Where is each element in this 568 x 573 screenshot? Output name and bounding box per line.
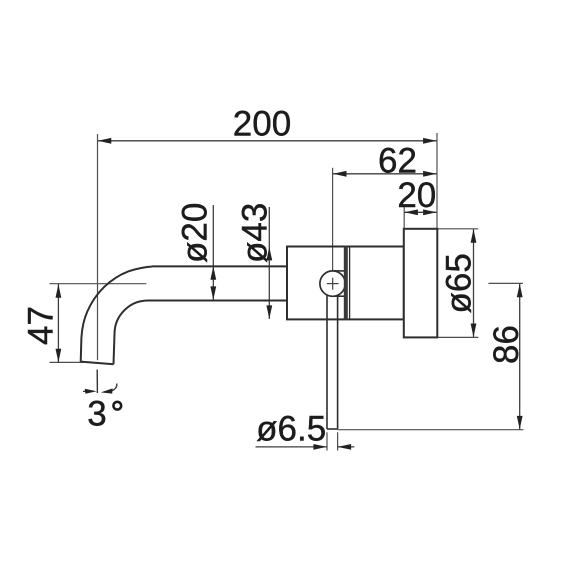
dimension 47 xyxy=(22,284,62,362)
spout tube bottom edge xyxy=(148,300,287,302)
extension line spout centerline (47 dim top) xyxy=(50,283,147,285)
svg-text:ø43: ø43 xyxy=(236,203,275,263)
spout outer bend xyxy=(81,267,152,362)
dimension 62 xyxy=(333,141,437,180)
extension line fl. bottom (65 dim) xyxy=(437,336,478,338)
handle hub tangents xyxy=(333,271,344,296)
dimension 200 xyxy=(98,104,437,143)
extension line left (spout outlet axis) xyxy=(97,134,99,360)
handle rod xyxy=(327,295,338,430)
cartridge seam xyxy=(344,247,350,320)
dimension 3deg xyxy=(83,370,121,434)
spout tube top edge xyxy=(152,265,287,267)
svg-text:86: 86 xyxy=(487,325,526,364)
spout outlet face xyxy=(81,362,114,365)
extension lines handle rod (6.5 dim) xyxy=(327,432,338,450)
faucet body (o43) xyxy=(287,247,404,320)
dimension o65 xyxy=(440,229,479,337)
dimension leader o20 xyxy=(176,203,217,300)
extension line outlet bottom (47 dim bottom) xyxy=(50,361,84,363)
spout inner bend xyxy=(114,301,149,365)
extension line 86 top (axis) xyxy=(488,282,523,284)
extension line valve axis xyxy=(332,168,334,271)
svg-text:20: 20 xyxy=(397,176,436,215)
extension line 86 bottom (handle end) xyxy=(338,429,524,431)
dimension 86 xyxy=(487,284,526,430)
svg-text:ø6.5: ø6.5 xyxy=(256,410,326,449)
extension line right (wall face) xyxy=(436,133,438,229)
extension line flange left (20 dim) xyxy=(403,206,405,229)
dimension 20 xyxy=(397,176,436,215)
dimension leader o43 xyxy=(236,203,275,319)
svg-text:ø65: ø65 xyxy=(440,253,479,313)
wall flange (o65 x 20) xyxy=(404,229,438,338)
extension line fl. top (65 dim) xyxy=(437,228,478,230)
pivot cross xyxy=(327,278,339,290)
svg-text:ø20: ø20 xyxy=(176,203,215,263)
svg-text:200: 200 xyxy=(233,104,291,143)
dimension o6.5 xyxy=(256,410,355,450)
svg-text:47: 47 xyxy=(22,306,61,345)
svg-text:62: 62 xyxy=(378,141,417,180)
valve pivot circle xyxy=(320,271,345,296)
svg-text:3: 3 xyxy=(87,395,106,434)
